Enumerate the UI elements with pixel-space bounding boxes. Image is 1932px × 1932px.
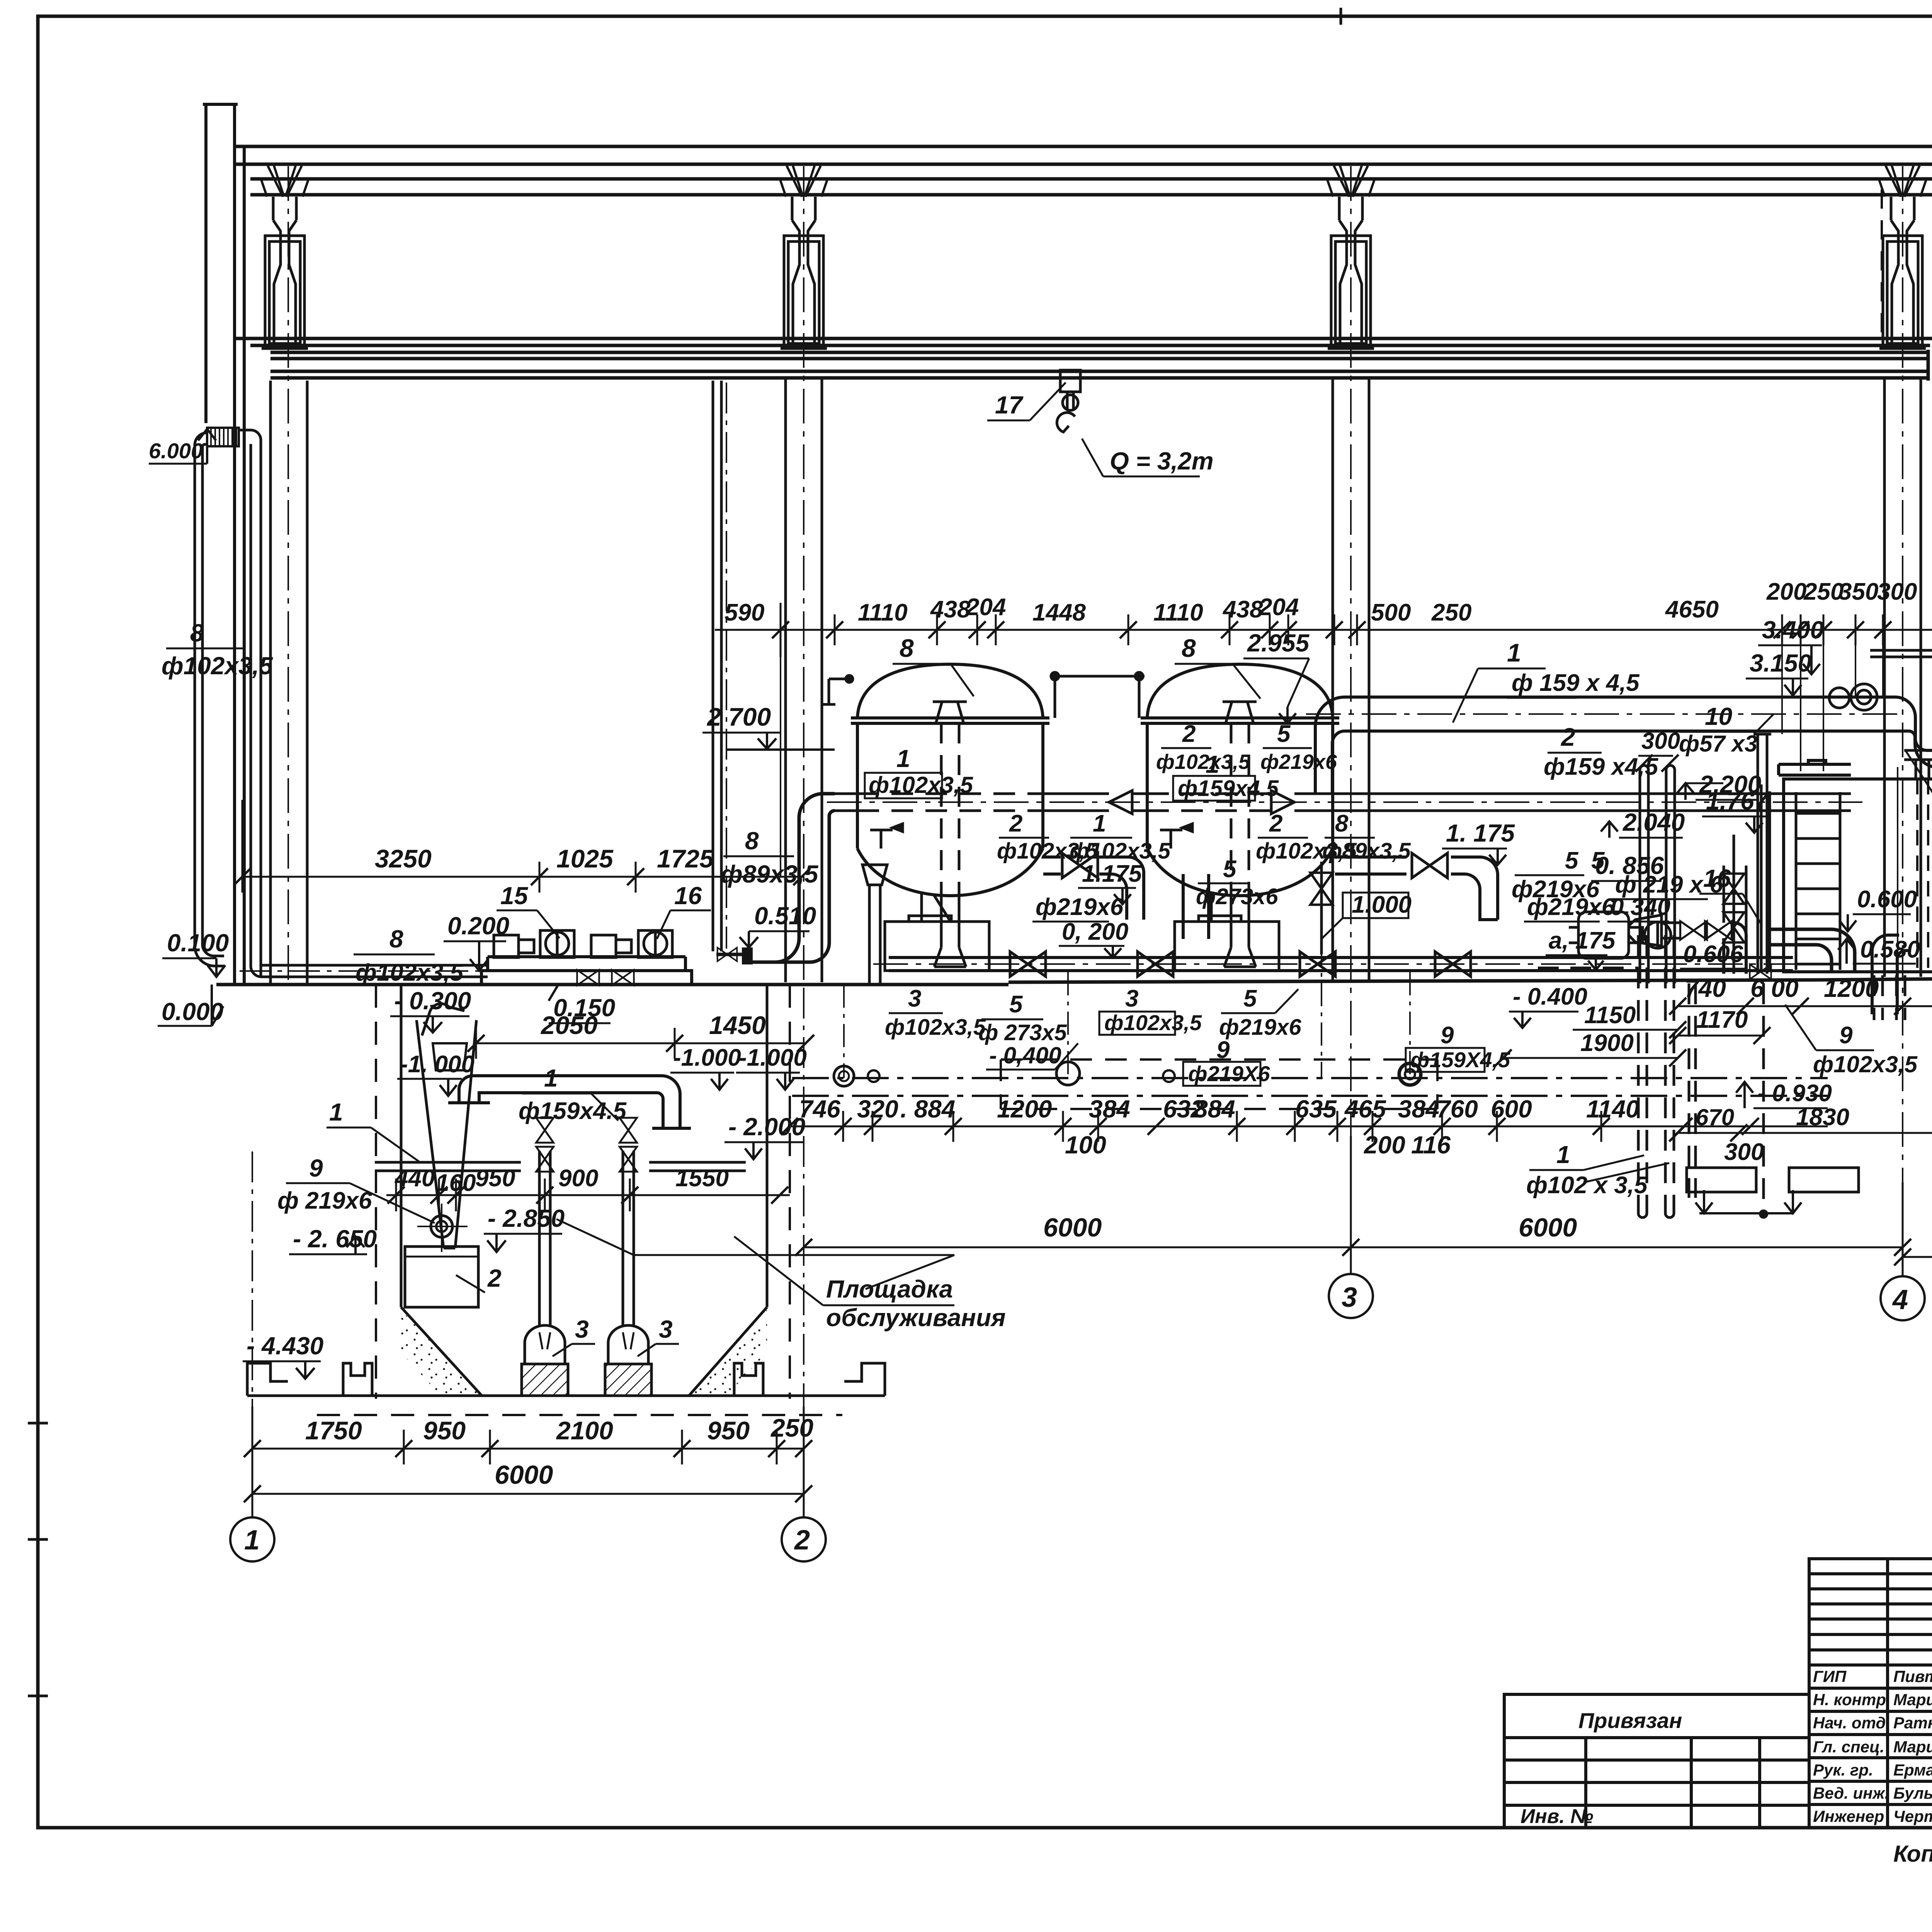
svg-text:1140: 1140	[1586, 1095, 1639, 1123]
black pipe end block	[742, 947, 753, 964]
labels 15 16	[497, 882, 711, 939]
6.000 level flag	[149, 429, 216, 464]
label 1 ф159х4.5 feed	[519, 1064, 627, 1124]
svg-text:8: 8	[900, 634, 914, 662]
svg-text:9: 9	[309, 1154, 323, 1182]
svg-text:Нач. отд.: Нач. отд.	[1813, 1714, 1890, 1732]
label 9 ф219х6 pit	[277, 1154, 435, 1223]
pump foundation	[481, 957, 692, 985]
wall column shaft below beam	[270, 381, 307, 985]
svg-text:2: 2	[1009, 810, 1022, 837]
lower manifold with valves	[889, 957, 1793, 971]
wall sleeve hatched	[207, 428, 239, 446]
svg-text:8: 8	[1335, 810, 1349, 837]
svg-text:-1.000: -1.000	[673, 1044, 741, 1071]
svg-text:600: 600	[1491, 1095, 1532, 1123]
tank supports left	[885, 893, 989, 971]
svg-text:Рук. гр.: Рук. гр.	[1813, 1761, 1873, 1779]
svg-text:950: 950	[423, 1416, 466, 1445]
svg-text:1. 175: 1. 175	[1446, 819, 1515, 847]
svg-text:2: 2	[1269, 810, 1282, 837]
svg-text:ф102х3,5: ф102х3,5	[869, 772, 974, 798]
svg-text:2 700: 2 700	[706, 702, 771, 731]
well circle 9	[431, 1216, 452, 1237]
pit walls	[401, 985, 767, 1396]
main pipe 2.040 horizontal dashed through tanks	[834, 791, 1851, 814]
svg-text:обслуживания: обслуживания	[826, 1304, 1006, 1332]
svg-text:1: 1	[1556, 1141, 1570, 1168]
tank 8 left centre drain below	[934, 889, 966, 967]
dim 6000 axes 4-5	[1903, 1256, 1932, 1258]
-2.000 flag	[724, 1113, 805, 1159]
trench dashed outline	[1001, 1060, 1437, 1109]
Площадка обслуживания	[556, 1219, 1006, 1332]
svg-text:ГИП: ГИП	[1813, 1667, 1847, 1685]
column bracket near wall	[262, 197, 308, 349]
hidden pipes dashed near right wall	[1882, 189, 1932, 972]
svg-text:ф219х6: ф219х6	[1219, 1015, 1301, 1040]
svg-text:500: 500	[1371, 599, 1411, 626]
svg-text:1: 1	[329, 1098, 343, 1126]
title block stamp	[1504, 1559, 1932, 1828]
svg-text:3: 3	[1125, 985, 1138, 1012]
svg-text:ф159х4.5: ф159х4.5	[1178, 776, 1279, 801]
svg-text:465: 465	[1344, 1095, 1386, 1123]
svg-text:1200: 1200	[1824, 975, 1879, 1002]
svg-text:5: 5	[1591, 847, 1605, 874]
0.100 / 0.000 left level flags	[158, 929, 240, 1026]
svg-text:ф 219х6: ф 219х6	[277, 1187, 372, 1214]
1.000 boxed label	[1343, 893, 1408, 918]
svg-text:250: 250	[1431, 599, 1471, 626]
svg-text:Марионков: Марионков	[1893, 1690, 1932, 1709]
svg-text:950: 950	[475, 1165, 515, 1192]
svg-text:0.150: 0.150	[553, 994, 615, 1022]
svg-text:ф219х6: ф219х6	[1260, 750, 1337, 774]
tank 8 left internal dashed pipe	[941, 723, 959, 889]
svg-text:5: 5	[1277, 721, 1291, 747]
pit dims 1750 950 2100 950 250	[252, 1406, 804, 1519]
svg-text:1550: 1550	[675, 1165, 729, 1192]
svg-text:0.606: 0.606	[1683, 941, 1743, 968]
right dim chains	[1678, 1005, 1932, 1007]
svg-text:2100: 2100	[556, 1416, 613, 1445]
svg-text:1: 1	[544, 1064, 558, 1092]
axis circle 4	[1881, 1276, 1925, 1320]
svg-text:1.000: 1.000	[1352, 891, 1412, 918]
svg-text:Вед. инж.: Вед. инж.	[1813, 1784, 1889, 1802]
label 8 ф89х3,5 right of pumps	[721, 827, 819, 888]
duct boxes	[1687, 1168, 1756, 1192]
sludge tank 2 in pit	[405, 1247, 478, 1307]
ceiling line 7.200 solid left part	[234, 337, 1932, 340]
svg-text:100: 100	[1065, 1131, 1106, 1159]
svg-text:ф 159 х 4,5: ф 159 х 4,5	[1512, 670, 1640, 696]
svg-text:Гл. спец.: Гл. спец.	[1813, 1738, 1884, 1756]
stamp names column	[1813, 1667, 1932, 1825]
axis circle 3	[1329, 1274, 1373, 1318]
svg-text:1025: 1025	[556, 844, 614, 873]
svg-text:320: 320	[857, 1095, 898, 1123]
svg-text:670: 670	[1696, 1104, 1734, 1130]
truss top chord double line	[250, 177, 1932, 181]
-4.430 flag	[243, 1332, 323, 1379]
svg-text:384: 384	[1089, 1095, 1130, 1123]
svg-text:1750: 1750	[305, 1416, 362, 1445]
svg-text:ф102х3,5: ф102х3,5	[1813, 1051, 1918, 1077]
-1.000 flags row	[397, 1044, 807, 1096]
tank 8 left	[851, 664, 1049, 896]
2700 level label	[702, 702, 835, 750]
svg-text:ф159х4.5: ф159х4.5	[519, 1098, 627, 1124]
svg-text:635: 635	[1295, 1095, 1337, 1123]
receiving funnel at 2.450	[1898, 750, 1932, 1005]
big elbow pipe to tank9	[1771, 929, 1911, 1014]
3.600 slab double line	[1870, 649, 1932, 652]
svg-text:- 2. 650: - 2. 650	[293, 1225, 377, 1253]
svg-text:5: 5	[1243, 985, 1257, 1012]
ladder	[1796, 792, 1840, 970]
pit bottom slab castellated	[247, 1363, 885, 1396]
svg-text:ф102х3,5: ф102х3,5	[1070, 838, 1171, 864]
svg-text:300: 300	[1724, 1139, 1764, 1165]
svg-text:-1. 000: -1. 000	[400, 1051, 474, 1078]
wells on drainage	[834, 1066, 854, 1086]
pump unit 16a	[591, 930, 672, 957]
tank 8 right	[1141, 664, 1339, 896]
svg-text:746: 746	[799, 1095, 840, 1123]
svg-text:1450: 1450	[709, 1011, 766, 1039]
column bracket axis 2	[781, 197, 827, 349]
svg-text:200: 200	[1364, 1131, 1405, 1159]
svg-text:- 0.400: - 0.400	[1513, 983, 1587, 1010]
svg-text:384: 384	[1398, 1095, 1439, 1123]
submersible pump risers	[539, 1151, 634, 1349]
roof slab top double line	[234, 145, 1932, 148]
svg-text:950: 950	[707, 1416, 750, 1445]
column bracket axis 3	[1328, 197, 1374, 349]
670 1830 300 chain	[1678, 1132, 1932, 1134]
top dim chain y1630	[715, 629, 1932, 631]
svg-text:1110: 1110	[1153, 599, 1203, 626]
svg-text:Ермакова: Ермакова	[1893, 1761, 1932, 1779]
svg-text:204: 204	[1259, 594, 1299, 621]
svg-text:590: 590	[724, 599, 764, 626]
svg-text:ф219х6: ф219х6	[1036, 894, 1124, 920]
small valve right of pumps	[718, 947, 737, 961]
svg-text:1725: 1725	[657, 844, 714, 873]
svg-text:884: 884	[1194, 1095, 1235, 1123]
svg-text:ф159Х4,5: ф159Х4,5	[1410, 1048, 1510, 1072]
svg-text:- 0.930: - 0.930	[1757, 1080, 1832, 1107]
ф273 riser tank2	[1183, 874, 1209, 939]
svg-text:5: 5	[1009, 991, 1023, 1018]
svg-text:3.150: 3.150	[1750, 649, 1811, 677]
svg-text:ф102х3,5: ф102х3,5	[355, 959, 464, 986]
svg-text:ф102х3,5: ф102х3,5	[1156, 750, 1250, 774]
svg-text:15: 15	[500, 882, 529, 910]
svg-text:6000: 6000	[495, 1460, 553, 1490]
svg-text:ф102х3,5: ф102х3,5	[1104, 1010, 1202, 1035]
svg-text:9: 9	[1440, 1022, 1454, 1049]
pump unit 16 right	[1569, 912, 1671, 958]
svg-text:8: 8	[745, 827, 759, 855]
svg-text:0.200: 0.200	[447, 912, 509, 940]
svg-text:ф273х6: ф273х6	[1196, 884, 1278, 909]
submersible pump 3 right	[605, 1325, 651, 1396]
mid-level pipe 1.175 between tanks	[1043, 857, 1144, 920]
svg-text:1170: 1170	[1696, 1007, 1748, 1033]
svg-text:3: 3	[1342, 1282, 1357, 1313]
concrete slope fill dotted	[401, 1310, 482, 1396]
svg-text:3250: 3250	[375, 844, 432, 873]
svg-text:Q = 3,2т: Q = 3,2т	[1110, 447, 1214, 475]
svg-text:250: 250	[770, 1413, 813, 1442]
dim 3250 1025 1725	[242, 800, 802, 893]
svg-text:2.200: 2.200	[1699, 770, 1761, 798]
svg-text:Пивторак: Пивторак	[1893, 1667, 1932, 1685]
svg-text:ф 273х5: ф 273х5	[978, 1020, 1067, 1045]
svg-text:3: 3	[575, 1315, 589, 1343]
svg-text:2.955: 2.955	[1247, 629, 1310, 657]
svg-text:160: 160	[436, 1170, 476, 1196]
svg-text:Ратников: Ратников	[1893, 1714, 1932, 1732]
svg-text:ф219х6: ф219х6	[1512, 876, 1600, 903]
svg-text:740: 740	[1685, 975, 1726, 1002]
svg-text:9: 9	[1216, 1037, 1230, 1063]
top small pulley near 3.150	[1829, 684, 1877, 710]
svg-text:ф102 х 3,5: ф102 х 3,5	[1526, 1172, 1648, 1199]
svg-text:6.000: 6.000	[149, 439, 203, 463]
vent mast far left of tank1	[822, 675, 853, 704]
svg-text:ф57 х3: ф57 х3	[1679, 731, 1757, 757]
standpipe 10	[1753, 734, 1771, 974]
elevated ф159 pipe from tank2 to right	[1315, 697, 1932, 794]
svg-text:Копировал: Коннова 21179-01: Копировал: Коннова 21179-01 8	[1893, 1841, 1932, 1867]
svg-text:200: 200	[1766, 578, 1806, 605]
vent standpipes ф57 with rounded caps	[1640, 765, 1675, 983]
pipe from pump: cone reducer, twin valves	[1629, 915, 1681, 946]
floor suction pipe to pumps	[270, 976, 488, 978]
dim 6000 axes 2-3 3-4	[804, 1247, 1903, 1248]
svg-text:1: 1	[244, 1525, 260, 1556]
svg-text:Булычева: Булычева	[1893, 1784, 1932, 1802]
svg-text:0.100: 0.100	[167, 929, 229, 957]
svg-text:5: 5	[1223, 856, 1237, 883]
svg-text:6000: 6000	[1519, 1213, 1577, 1242]
svg-text:1150: 1150	[1584, 1002, 1636, 1029]
valves on riser to vents	[1723, 874, 1744, 904]
big valve under tank2 right	[1310, 873, 1333, 905]
svg-text:17: 17	[995, 391, 1024, 419]
svg-text:2: 2	[794, 1525, 810, 1556]
svg-text:300: 300	[1641, 728, 1680, 754]
feed pipe ф159 into pit	[448, 1076, 691, 1128]
svg-text:- 4.430: - 4.430	[247, 1332, 323, 1360]
svg-text:0, 200: 0, 200	[1062, 918, 1128, 945]
mid partition wall of right bay	[1870, 176, 1932, 972]
svg-text:204: 204	[966, 594, 1006, 621]
0.200 flag at foundation	[444, 912, 509, 971]
underground drainage dash-dot pipes	[792, 1078, 1828, 1096]
svg-text:0.340: 0.340	[1611, 894, 1670, 920]
svg-text:6000: 6000	[1043, 1213, 1102, 1242]
svg-text:16: 16	[674, 882, 702, 910]
dim 440 160 950 900 1550	[386, 1179, 790, 1211]
axis circle 2	[782, 1517, 826, 1561]
svg-text:Н. контр.: Н. контр.	[1813, 1690, 1891, 1709]
svg-text:250: 250	[1803, 578, 1844, 605]
crane hook trolley	[1057, 370, 1080, 432]
svg-text:4: 4	[1892, 1284, 1908, 1315]
column shaft axis 4	[1883, 378, 1886, 977]
column bracket axis 4	[1879, 197, 1926, 349]
submersible pump 3 left	[522, 1325, 568, 1396]
svg-text:0.510: 0.510	[754, 902, 816, 930]
underground dashed pipes right	[1538, 935, 1764, 1213]
valve stacks on risers	[536, 1118, 554, 1143]
svg-text:350: 350	[1838, 578, 1878, 605]
svg-text:440: 440	[394, 1165, 435, 1192]
svg-text:1110: 1110	[858, 599, 908, 626]
outside downpipe left of wall	[195, 433, 224, 966]
svg-text:1: 1	[1507, 638, 1521, 667]
main floor line 0.000	[216, 983, 1009, 986]
dim 2050 1450	[476, 1028, 806, 1059]
tank 9	[1779, 760, 1932, 972]
svg-text:10: 10	[1705, 702, 1732, 730]
service platform	[375, 1162, 746, 1171]
central dim chain	[789, 1126, 1828, 1128]
left elbow pipes of tank1 to floor	[753, 794, 835, 962]
svg-text:0.580: 0.580	[1860, 936, 1920, 963]
svg-text:1: 1	[1093, 810, 1106, 837]
svg-text:Привязан: Привязан	[1578, 1708, 1682, 1733]
svg-text:ф102х3,5: ф102х3,5	[162, 652, 273, 680]
svg-text:3: 3	[659, 1315, 673, 1343]
svg-text:300: 300	[1877, 578, 1917, 605]
svg-text:ф102х3,5: ф102х3,5	[885, 1015, 986, 1040]
svg-text:760: 760	[1437, 1095, 1478, 1123]
left wall with parapet	[203, 104, 244, 985]
hydrocyclone funnel	[417, 1003, 476, 1248]
column shaft axis 2	[786, 378, 1921, 982]
svg-text:900: 900	[558, 1165, 598, 1192]
svg-text:2: 2	[1560, 723, 1575, 751]
svg-text:- 2.850: - 2.850	[488, 1204, 565, 1232]
svg-text:2: 2	[487, 1264, 502, 1292]
-2.850 flag	[484, 1204, 565, 1252]
svg-text:6 00: 6 00	[1750, 975, 1799, 1002]
discharge riser ф89 up	[713, 381, 721, 951]
svg-text:ф89х3,5: ф89х3,5	[1322, 838, 1411, 864]
svg-text:5: 5	[1565, 847, 1579, 874]
label 8 ф102х3,5 floor pipe	[354, 925, 464, 986]
discharge valves between pumps	[577, 970, 599, 985]
svg-text:8: 8	[389, 925, 403, 953]
svg-text:ф219Х6: ф219Х6	[1188, 1061, 1270, 1086]
column shaft axis 3	[1332, 378, 1334, 980]
axis circle 1	[230, 1517, 274, 1561]
pipe through wall, elbow down to riser	[239, 430, 488, 978]
dim 6000 axes 1-2	[252, 1493, 804, 1495]
svg-text:2: 2	[1182, 721, 1196, 747]
svg-text:1448: 1448	[1032, 599, 1086, 626]
svg-text:3: 3	[908, 985, 921, 1012]
crane runway beam	[270, 351, 1928, 354]
fold marks on left border	[28, 8, 1341, 1696]
svg-text:Чертков: Чертков	[1893, 1807, 1932, 1825]
svg-text:9: 9	[1839, 1022, 1853, 1049]
dash-dot centerline of floor pipe	[240, 970, 491, 972]
svg-text:1900: 1900	[1580, 1030, 1634, 1056]
tank 8 left tap	[870, 824, 903, 849]
0.150 label	[549, 985, 615, 1023]
svg-text:. 884: . 884	[900, 1095, 955, 1123]
label Q=3,2т	[1082, 439, 1214, 476]
svg-text:Инв. №: Инв. №	[1520, 1805, 1594, 1828]
pump unit 15	[494, 930, 574, 957]
svg-text:438: 438	[1222, 596, 1263, 623]
axis centerlines dash-dot	[288, 101, 1932, 1274]
label 17 hook	[987, 383, 1066, 420]
svg-text:1830: 1830	[1796, 1104, 1849, 1131]
svg-text:1200: 1200	[997, 1095, 1052, 1123]
svg-text:4650: 4650	[1665, 596, 1719, 623]
tank 8 left overflow funnel left side	[862, 865, 887, 985]
svg-text:Инженер: Инженер	[1813, 1807, 1884, 1825]
svg-text:Марионков: Марионков	[1893, 1738, 1932, 1756]
vent header between tanks	[1050, 672, 1145, 718]
svg-text:8: 8	[190, 619, 204, 647]
svg-text:а, 175: а, 175	[1549, 927, 1616, 954]
svg-text:116: 116	[1411, 1131, 1451, 1159]
svg-text:0.600: 0.600	[1857, 886, 1917, 913]
svg-text:-1.000: -1.000	[739, 1044, 807, 1071]
mid-level pipe right of tank2	[1335, 857, 1406, 874]
svg-text:1: 1	[896, 745, 910, 772]
label 8 ф102х3,5 (wall riser)	[162, 619, 273, 680]
extension verticals from chain down	[781, 645, 1883, 877]
-2.650 flag	[289, 1225, 377, 1254]
svg-text:8: 8	[1182, 634, 1196, 662]
-0.300 flag	[390, 987, 471, 1032]
svg-text:438: 438	[930, 596, 971, 623]
0.510 flag	[740, 902, 816, 947]
